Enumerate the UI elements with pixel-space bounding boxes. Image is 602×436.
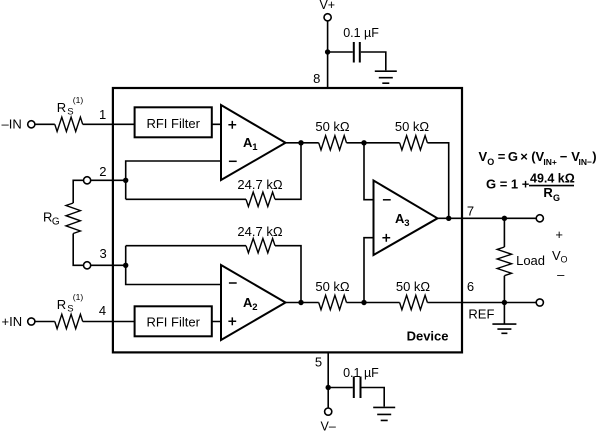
svg-text:24.7 kΩ: 24.7 kΩ [237,177,282,192]
svg-text:4: 4 [99,303,106,318]
svg-text:+IN: +IN [2,314,23,329]
svg-text:–IN: –IN [2,117,22,132]
svg-text:50 kΩ: 50 kΩ [315,119,350,134]
svg-text:REF: REF [468,307,494,322]
svg-text:V–: V– [321,419,336,431]
svg-text:0.1 µF: 0.1 µF [343,26,379,40]
svg-text:5: 5 [315,355,322,370]
svg-text:50 kΩ: 50 kΩ [395,119,430,134]
svg-text:8: 8 [313,71,320,86]
svg-text:Load: Load [516,253,545,268]
svg-text:7: 7 [467,203,474,218]
svg-text:50 kΩ: 50 kΩ [396,279,431,294]
svg-text:1: 1 [99,107,106,122]
svg-text:0.1 µF: 0.1 µF [343,366,379,380]
svg-text:50 kΩ: 50 kΩ [315,279,350,294]
svg-text:24.7 kΩ: 24.7 kΩ [237,224,282,239]
svg-text:6: 6 [467,279,474,294]
svg-text:RFI Filter: RFI Filter [146,116,200,131]
svg-text:–: – [557,267,565,282]
svg-text:2: 2 [99,164,106,179]
svg-text:3: 3 [99,246,106,261]
svg-text:+: + [555,227,563,242]
svg-text:RFI Filter: RFI Filter [146,314,200,329]
svg-text:V+: V+ [319,0,335,12]
svg-text:Device: Device [407,329,449,344]
